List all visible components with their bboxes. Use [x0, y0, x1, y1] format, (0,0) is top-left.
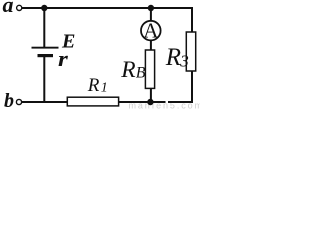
- wire RB to bottom junction: [150, 88, 152, 102]
- svg-text:r: r: [58, 46, 68, 71]
- battery E positive plate: [32, 47, 59, 49]
- svg-text:B: B: [136, 65, 146, 82]
- resistor R1: [67, 97, 118, 106]
- wire right vertical lower segment (R3 to bottom corner): [191, 70, 193, 103]
- svg-text:R: R: [165, 44, 181, 71]
- svg-text:R: R: [120, 57, 135, 83]
- wire top horizontal from terminal a to top-right corner: [22, 7, 192, 9]
- node junction top-right (ammeter branch): [148, 5, 154, 11]
- wire ammeter branch upper: [150, 8, 152, 21]
- wire battery branch lower: [43, 57, 45, 102]
- node junction top-left (battery branch): [41, 5, 47, 11]
- wire right vertical upper segment (top corner to R3): [191, 7, 193, 33]
- svg-text:R: R: [87, 75, 100, 96]
- node junction bottom (ammeter/RB branch): [147, 99, 153, 105]
- svg-text:a: a: [3, 0, 14, 17]
- wire bottom horizontal middle segment (R1 to junction): [118, 101, 166, 103]
- resistor R3: [186, 32, 195, 71]
- battery E negative plate (thick): [38, 54, 54, 57]
- resistor RB: [145, 50, 154, 88]
- svg-text:3: 3: [179, 51, 189, 70]
- terminal a: [17, 5, 22, 10]
- wire battery branch upper: [43, 8, 45, 47]
- wire ammeter to RB: [150, 40, 152, 50]
- terminal b: [16, 99, 21, 104]
- svg-text:1: 1: [101, 81, 108, 96]
- svg-text:A: A: [143, 19, 159, 43]
- ammeter A: [141, 21, 161, 41]
- wire bottom horizontal right segment (junction to bottom-right corner): [168, 101, 193, 103]
- svg-text:b: b: [4, 90, 14, 110]
- wire bottom horizontal left segment (terminal b to R1): [22, 101, 68, 103]
